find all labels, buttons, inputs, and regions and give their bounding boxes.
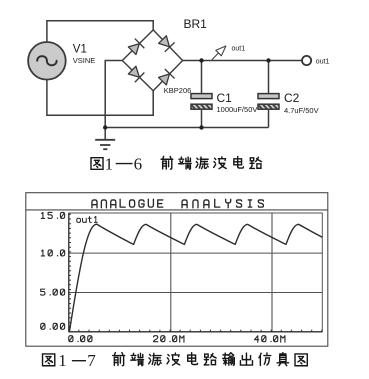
diode BR1 bottom-left (anode left corner, cathode bottom corner) xyxy=(127,65,144,82)
svg-text:C2: C2 xyxy=(284,91,300,105)
diode BR1 bottom-right (anode bottom corner, cathode right corner) xyxy=(158,69,175,86)
svg-text:1000uF/50V: 1000uF/50V xyxy=(217,105,258,114)
diode BR1 top-left (anode left corner, cathode top corner) xyxy=(127,39,144,56)
x axis line xyxy=(69,331,322,333)
plot area box xyxy=(69,213,322,332)
y axis label 15.0 xyxy=(41,212,64,218)
svg-text:out1: out1 xyxy=(232,45,246,52)
x axis label 0.00 xyxy=(69,336,92,342)
horizontal gridline 10.0 xyxy=(69,252,322,254)
horizontal gridline 5.00 xyxy=(69,292,322,294)
terminal label out1 xyxy=(316,59,330,66)
vertical gridline 20.0M xyxy=(170,213,172,332)
x axis label 40.0M xyxy=(255,336,285,343)
label BR1 xyxy=(184,17,208,31)
y axis label 10.0 xyxy=(41,250,64,256)
label C1 xyxy=(217,91,233,105)
vertical gridline 40.0M xyxy=(271,213,273,332)
svg-text:4.7uF/50V: 4.7uF/50V xyxy=(284,106,319,115)
svg-text:1: 1 xyxy=(58,351,67,370)
output rail wire from BR1 right corner to terminal out1 xyxy=(183,60,302,62)
trace label out1 xyxy=(77,216,98,222)
svg-text:BR1: BR1 xyxy=(184,17,208,31)
label V1 xyxy=(73,43,87,55)
node junction dot C1 top on output rail xyxy=(199,58,203,62)
node junction dot C2 top on output rail xyxy=(266,58,270,62)
wire from V1 top terminal up and right to BR1 top corner xyxy=(47,21,153,42)
capacitor C2 xyxy=(257,61,283,128)
chart outer frame (ANALOGUE ANALYSIS window) xyxy=(26,193,328,347)
svg-text:out1: out1 xyxy=(316,59,330,66)
capacitor C1 xyxy=(190,61,216,128)
caption: 图1-6 前端滤波电路 xyxy=(91,154,261,173)
terminal out1 (output pin circle) xyxy=(302,56,311,65)
bridge rectifier BR1 diamond outline xyxy=(122,30,182,91)
probe label out1 xyxy=(232,45,246,52)
x axis minor ticks xyxy=(79,330,322,332)
value label VSINE xyxy=(73,56,96,65)
wire from BR1 left corner down to ground rail xyxy=(105,61,122,128)
y axis label 5.00 xyxy=(41,289,65,295)
voltage probe out1 (arrow) xyxy=(212,46,226,60)
svg-text:KBP206: KBP206 xyxy=(164,86,192,95)
wire from V1 bottom terminal down and right to BR1 bottom corner xyxy=(47,80,153,116)
svg-text:6: 6 xyxy=(134,154,143,173)
x axis label 20.0M xyxy=(154,336,184,343)
node junction dot C1 bottom on ground rail xyxy=(199,125,203,129)
chart title ANALOGUE ANALYSIS xyxy=(92,199,263,207)
y axis line xyxy=(68,213,70,332)
value label 1000uF/50V xyxy=(217,105,258,114)
y axis label 0.00 (shifted up) xyxy=(41,323,65,329)
diode BR1 top-right (anode top corner, cathode right corner) xyxy=(158,35,175,52)
node junction dot at ground rail / BR1 left xyxy=(103,125,107,129)
ground rail wire from ground junction to C2 bottom xyxy=(105,127,268,129)
value label 4.7uF/50V xyxy=(284,106,319,115)
value label KBP206 xyxy=(164,86,192,95)
svg-text:7: 7 xyxy=(87,351,96,370)
waveform trace out1 xyxy=(69,224,322,331)
ground xyxy=(95,128,115,150)
caption: 图1-7 前端滤波电路输出仿真图 xyxy=(43,351,308,370)
label C2 xyxy=(284,91,300,105)
svg-text:V1: V1 xyxy=(73,43,87,55)
voltage source V1 (VSINE) xyxy=(28,42,66,80)
svg-text:VSINE: VSINE xyxy=(73,56,96,65)
svg-text:C1: C1 xyxy=(217,91,233,105)
y axis minor ticks xyxy=(69,214,71,327)
svg-text:1: 1 xyxy=(105,154,114,173)
